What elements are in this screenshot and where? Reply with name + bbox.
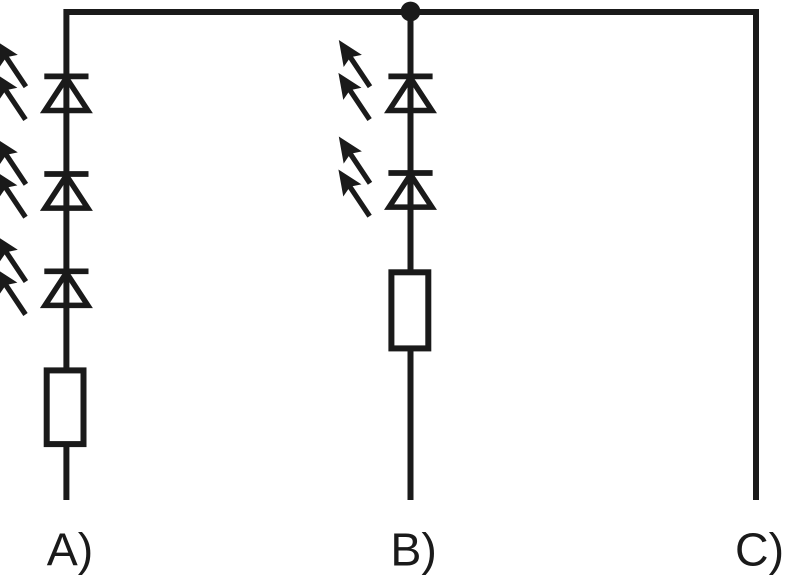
svg-text:B): B) — [390, 524, 437, 576]
wire: top bus with branch A and branch C verticals — [66, 12, 756, 500]
node: junction of branch B with top bus — [401, 2, 421, 22]
LED D3 light arrows — [0, 236, 26, 315]
LED D4 (branch B, top) — [388, 76, 432, 110]
wire: branch B vertical lower segment — [408, 350, 414, 500]
svg-text:A): A) — [47, 524, 94, 576]
LED D5 light arrows — [339, 138, 370, 217]
wire: branch B vertical upper segment — [408, 12, 414, 272]
LED D1 (branch A, top) — [44, 76, 88, 110]
LED D3 (branch A, bottom) — [44, 271, 88, 305]
resistor R1 (branch A) — [47, 370, 84, 444]
LED D5 (branch B, bottom) — [388, 173, 432, 207]
LED D2 (branch A, middle) — [44, 174, 88, 208]
LED D1 light arrows — [0, 41, 26, 120]
LED D4 light arrows — [339, 41, 370, 120]
resistor R2 (branch B) — [391, 272, 428, 348]
svg-text:C): C) — [735, 524, 784, 576]
LED D2 light arrows — [0, 139, 26, 218]
